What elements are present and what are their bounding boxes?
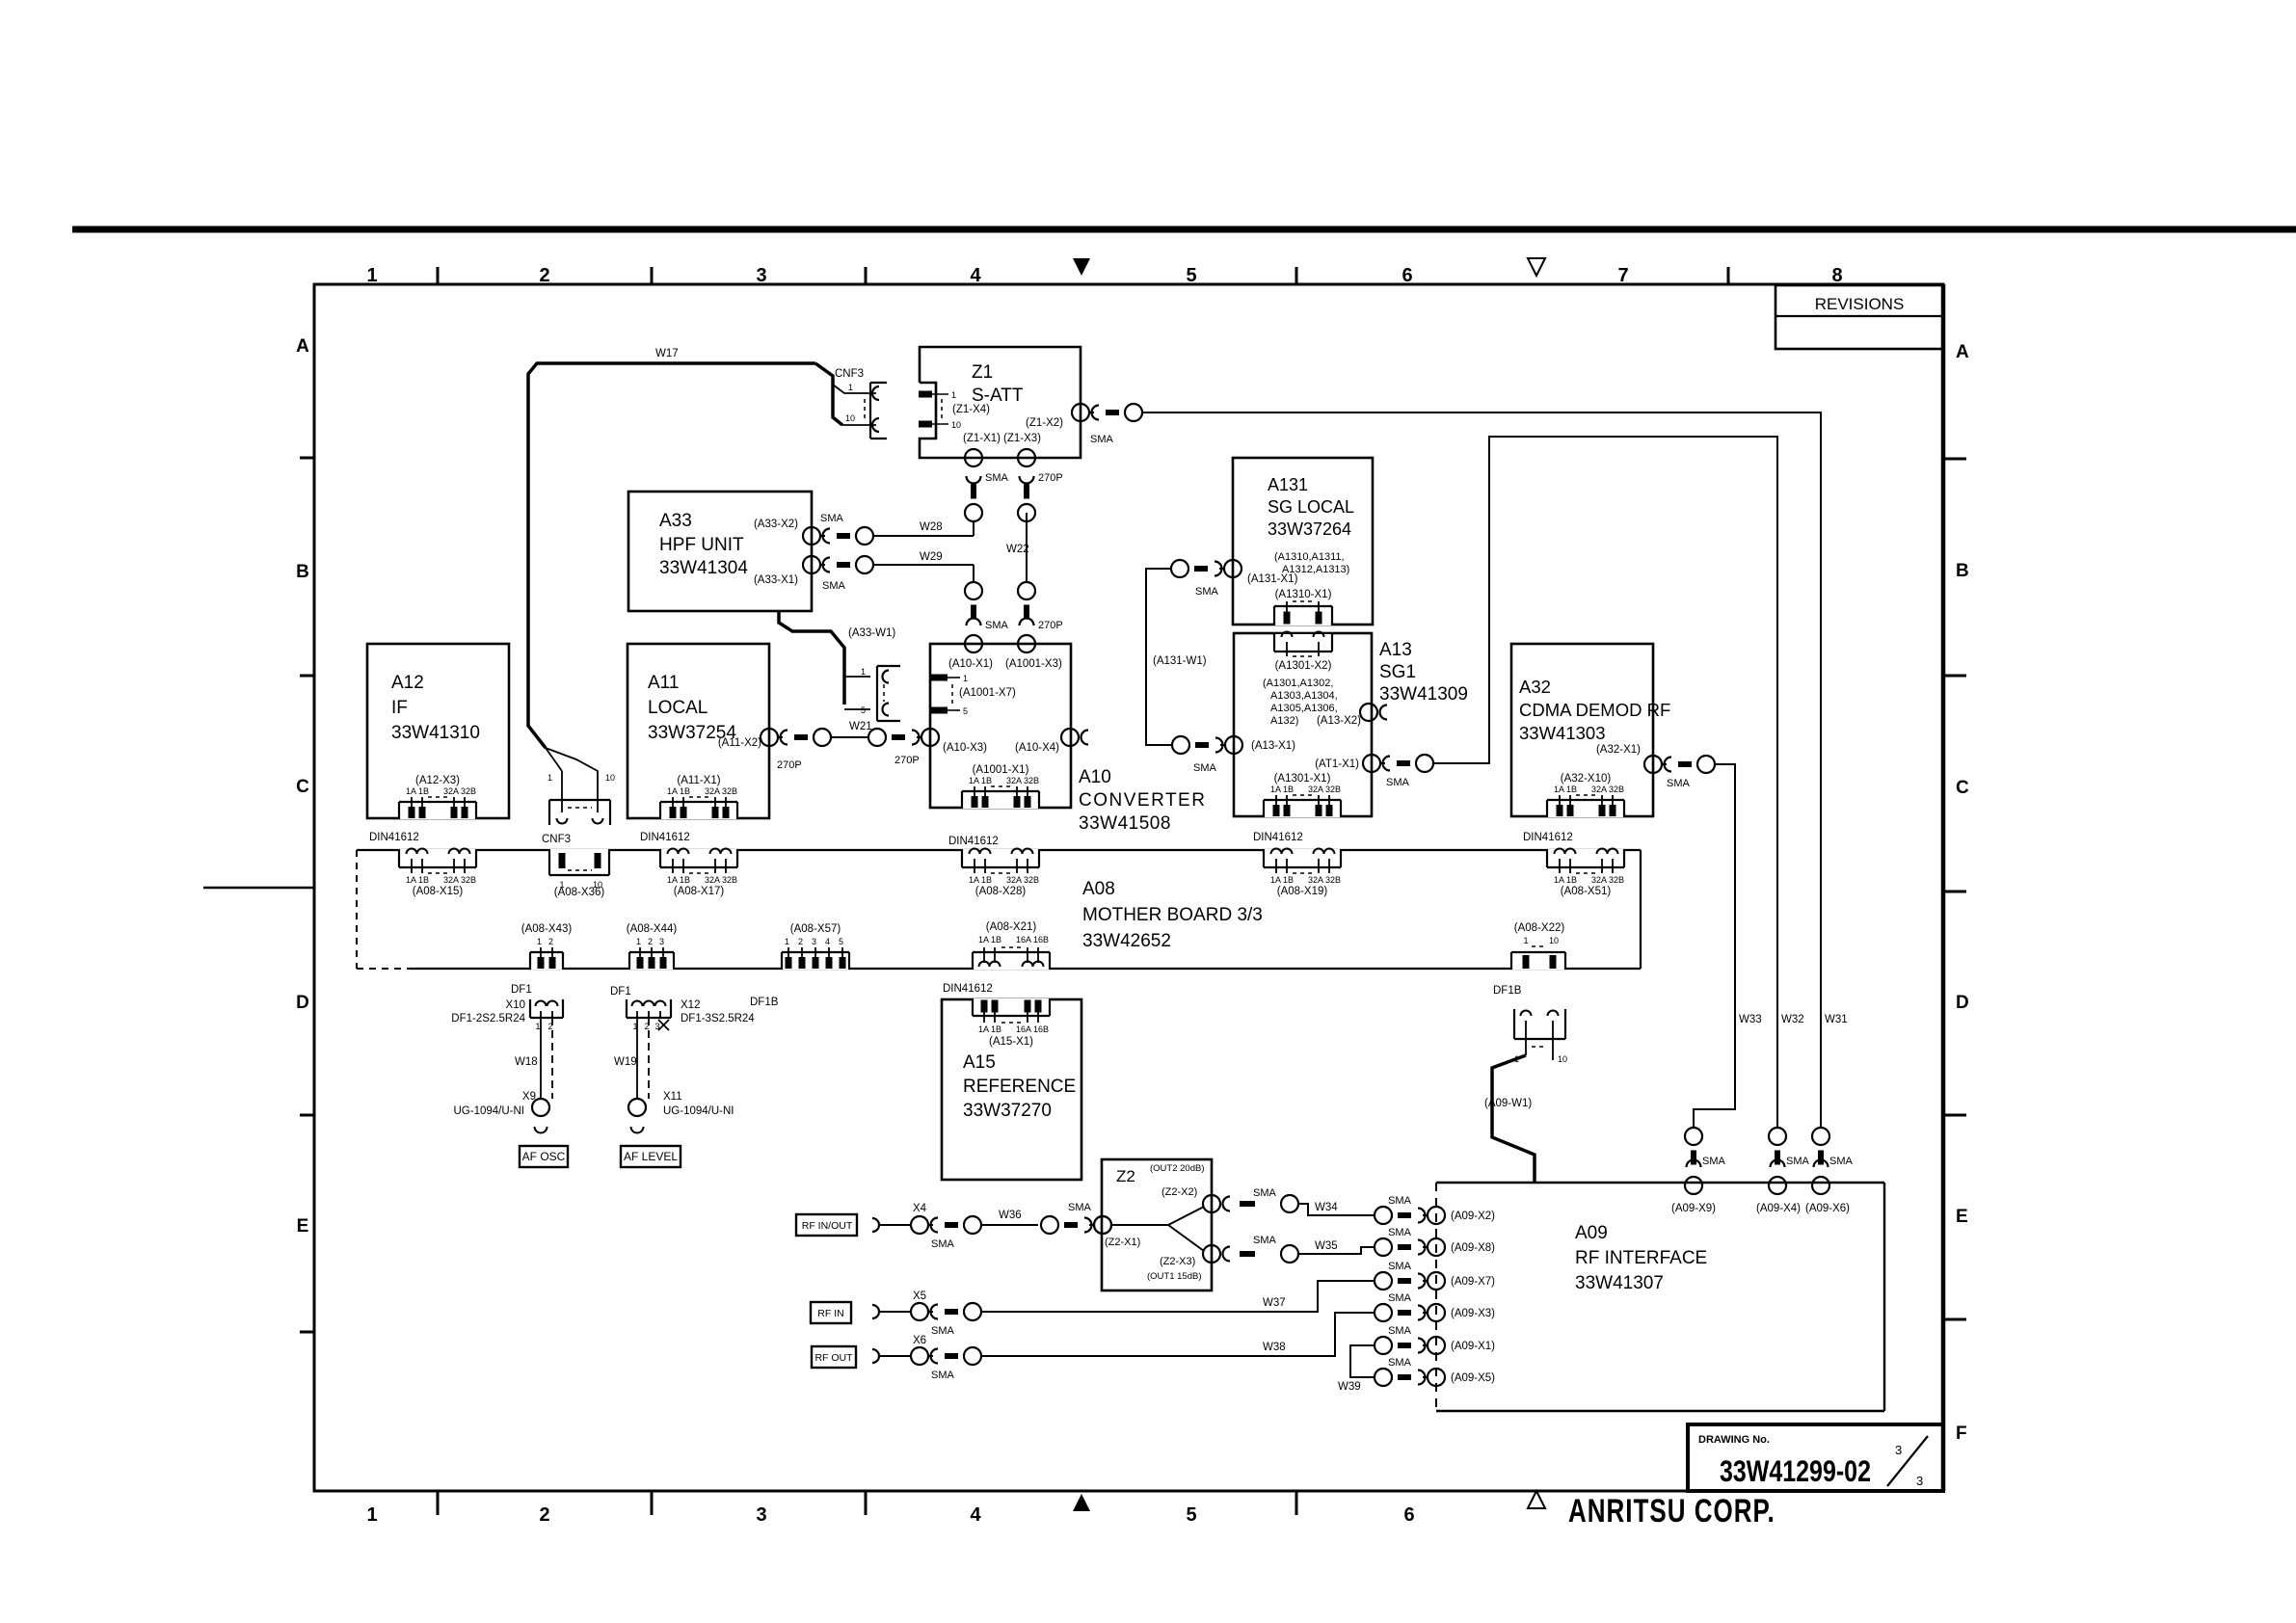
wire W21: [830, 736, 868, 738]
connector (A11-X2) 270P pair: [761, 729, 831, 746]
connector (A08-X28): [961, 849, 1040, 898]
bottom ruler zone numbers 1-6: [366, 1504, 1414, 1526]
svg-text:A13: A13: [1379, 640, 1412, 660]
splitter wires in Z2: [1111, 1207, 1204, 1251]
svg-text:3: 3: [1895, 1443, 1902, 1457]
label (A33-X1): [754, 574, 798, 586]
svg-text:W35: W35: [1315, 1240, 1338, 1252]
connector (A1301-X1) DIN: [1263, 773, 1342, 817]
svg-text:W18: W18: [515, 1056, 538, 1068]
svg-text:SMA: SMA: [1090, 434, 1114, 445]
label SMA at A09-X2: [1388, 1195, 1412, 1207]
label W39: [1338, 1381, 1361, 1393]
wire W22: [1026, 513, 1028, 582]
label SMA at A09-X1: [1388, 1325, 1412, 1337]
label SMA at A09-X9: [1702, 1156, 1726, 1167]
svg-text:A131: A131: [1268, 475, 1308, 494]
label X10: [451, 999, 525, 1024]
label X4: [913, 1203, 927, 1214]
connector (A09-X9) SMA chain: [1685, 1128, 1702, 1194]
svg-text:270P: 270P: [777, 759, 802, 771]
svg-text:4: 4: [970, 265, 981, 286]
label W17: [655, 348, 679, 359]
wire W17 pin stubs: [833, 383, 876, 425]
wire W35: [1298, 1247, 1375, 1254]
sheet fraction 3/3: [1887, 1436, 1928, 1488]
block A09 RF INTERFACE: [1436, 1183, 1884, 1411]
svg-text:1A 1B: 1A 1B: [1554, 875, 1577, 885]
svg-text:LOCAL: LOCAL: [648, 698, 707, 718]
connector CNF3 shell (mid): [549, 800, 610, 825]
svg-text:DIN41612: DIN41612: [1523, 832, 1573, 843]
svg-text:SMA: SMA: [931, 1370, 955, 1381]
svg-text:32A 32B: 32A 32B: [1591, 875, 1624, 885]
svg-text:(A08-X43): (A08-X43): [521, 923, 573, 935]
connector (Z2-X3) SMA pair: [1203, 1245, 1298, 1263]
svg-text:270P: 270P: [1038, 472, 1063, 484]
label DF1B under X22: [1493, 985, 1522, 997]
svg-text:SMA: SMA: [822, 580, 846, 592]
svg-text:1A 1B: 1A 1B: [969, 776, 992, 785]
connector (A1310-X1): [1274, 601, 1333, 625]
svg-text:W32: W32: [1781, 1014, 1804, 1025]
svg-text:2: 2: [548, 937, 553, 946]
label W34: [1315, 1202, 1338, 1213]
svg-text:X6: X6: [913, 1335, 926, 1346]
svg-text:16A 16B: 16A 16B: [1016, 1024, 1049, 1034]
label DIN41612 under A32: [1523, 832, 1573, 843]
svg-text:DF1-3S2.5R24: DF1-3S2.5R24: [681, 1013, 755, 1024]
svg-text:(OUT1 15dB): (OUT1 15dB): [1147, 1271, 1202, 1282]
label (A09-W1): [1484, 1098, 1532, 1109]
label (A09-X5): [1451, 1372, 1495, 1384]
svg-text:33W41303: 33W41303: [1519, 723, 1605, 743]
svg-text:3: 3: [756, 265, 766, 286]
connector (A1001-X3) 270P chain: [1018, 582, 1035, 652]
svg-text:1: 1: [366, 265, 377, 286]
label A32: [1519, 677, 1670, 743]
svg-text:(A08-X44): (A08-X44): [627, 923, 678, 935]
label 270P at A10-X3: [894, 755, 920, 766]
pin numbers X12: [632, 1020, 669, 1031]
svg-text:C: C: [1956, 778, 1969, 798]
label CNF3 (mid): [542, 834, 571, 845]
label (A13-X2): [1317, 715, 1361, 727]
label A33: [659, 511, 748, 578]
svg-text:(A08-X51): (A08-X51): [1561, 886, 1612, 897]
svg-text:SMA: SMA: [1193, 762, 1217, 774]
left border tick marks: [300, 458, 315, 1332]
svg-text:(OUT2 20dB): (OUT2 20dB): [1150, 1163, 1205, 1174]
label DF1 under X43: [511, 984, 532, 996]
label W21: [849, 721, 872, 732]
svg-text:(A1301,A1302,: (A1301,A1302,: [1263, 678, 1333, 689]
connector X9 plug: [532, 1099, 549, 1133]
svg-text:REVISIONS: REVISIONS: [1815, 295, 1905, 313]
svg-text:4: 4: [970, 1504, 981, 1526]
label SMA at A33-X1: [822, 580, 846, 592]
svg-text:1: 1: [547, 773, 552, 783]
panel label RF IN/OUT: [796, 1214, 857, 1236]
svg-text:(A09-X7): (A09-X7): [1451, 1276, 1495, 1288]
label (Z1-X4): [952, 404, 990, 415]
label W19: [614, 1056, 637, 1068]
svg-text:1: 1: [785, 937, 789, 946]
svg-text:A15: A15: [963, 1052, 996, 1073]
svg-text:B: B: [1956, 561, 1969, 581]
right border row letters A-F: [1956, 342, 1969, 1444]
label 270P at A11-X2: [777, 759, 802, 771]
svg-text:SMA: SMA: [820, 513, 844, 524]
label (A1001-X3): [1005, 658, 1062, 670]
connector (Z1-X3) 270P chain: [1018, 449, 1035, 521]
wire W36: [981, 1224, 1038, 1226]
svg-text:1: 1: [951, 390, 956, 400]
connector (AT1-X1) SMA pair: [1363, 755, 1433, 772]
connector X10 shell: [530, 999, 563, 1018]
connector (A08-X51): [1546, 849, 1625, 898]
connector (Z1-X4) pins: [919, 390, 961, 430]
svg-text:1A 1B: 1A 1B: [406, 786, 429, 796]
svg-text:SMA: SMA: [1702, 1156, 1726, 1167]
svg-text:DF1: DF1: [610, 986, 631, 998]
label (A09-X9): [1671, 1203, 1716, 1214]
label (A08-X36): [554, 887, 605, 898]
svg-text:32A 32B: 32A 32B: [1006, 875, 1039, 885]
svg-text:7: 7: [1617, 265, 1628, 286]
svg-text:(Z1-X4): (Z1-X4): [952, 404, 990, 415]
label W28: [920, 521, 943, 533]
panel label AF LEVEL: [621, 1146, 681, 1167]
connector (Z2-X2) SMA pair: [1203, 1195, 1298, 1212]
label SMA at Z2-X3: [1253, 1235, 1277, 1246]
label W29: [920, 551, 943, 563]
label (A08-X22): [1514, 922, 1565, 934]
svg-text:(Z1-X1): (Z1-X1): [963, 433, 1001, 444]
label SMA at X5: [931, 1325, 955, 1337]
label SMA at X6: [931, 1370, 955, 1381]
label (Z1-X2): [1026, 417, 1063, 429]
label W22: [1006, 544, 1029, 555]
label (A131-W1): [1153, 655, 1207, 667]
block Z1 S-ATT: [920, 347, 1081, 458]
svg-text:(AT1-X1): (AT1-X1): [1315, 758, 1359, 770]
svg-text:SMA: SMA: [1388, 1292, 1412, 1304]
label A11: [648, 673, 736, 743]
svg-text:8: 8: [1831, 265, 1842, 286]
label (A09-X6): [1805, 1203, 1850, 1214]
svg-text:SMA: SMA: [1388, 1261, 1412, 1272]
svg-text:1A 1B: 1A 1B: [667, 786, 690, 796]
svg-text:(A33-W1): (A33-W1): [848, 627, 895, 639]
wire A131-W1: [1146, 569, 1171, 745]
svg-text:SMA: SMA: [931, 1238, 955, 1250]
svg-text:X5: X5: [913, 1290, 926, 1302]
svg-text:(A13-X1): (A13-X1): [1251, 740, 1295, 752]
connector (A08-X19): [1263, 849, 1342, 898]
connector (A1001-X1) DIN: [961, 764, 1040, 809]
label (A09-X4): [1756, 1203, 1801, 1214]
wire W17 (thick): [528, 363, 842, 748]
connector shell for A33-W1: [861, 666, 900, 721]
svg-text:A32: A32: [1519, 677, 1551, 697]
bottom alignment triangle (filled): [1073, 1494, 1090, 1511]
svg-text:SMA: SMA: [985, 472, 1009, 484]
svg-text:33W41307: 33W41307: [1575, 1273, 1664, 1293]
svg-text:W28: W28: [920, 521, 943, 533]
svg-text:SMA: SMA: [985, 620, 1009, 631]
svg-text:E: E: [297, 1216, 309, 1237]
connector (A08-X43): [521, 923, 573, 970]
bottom ruler tick marks: [438, 1491, 1296, 1515]
block A11 LOCAL: [627, 644, 769, 818]
svg-text:16A 16B: 16A 16B: [1016, 935, 1049, 945]
frame heavy top rule: [72, 226, 2296, 233]
svg-text:5: 5: [861, 705, 866, 715]
svg-text:D: D: [296, 993, 309, 1013]
label SMA at A09-X8: [1388, 1227, 1412, 1238]
label A12: [391, 673, 480, 743]
label DIN41612 under A13: [1253, 832, 1303, 843]
board A08 outline: [357, 850, 1641, 969]
svg-text:33W41508: 33W41508: [1079, 813, 1171, 834]
bottom alignment triangle (open): [1528, 1491, 1545, 1508]
svg-text:A08: A08: [1082, 879, 1115, 899]
svg-text:A09: A09: [1575, 1223, 1608, 1243]
svg-text:(A11-X1): (A11-X1): [677, 775, 720, 786]
svg-text:5: 5: [963, 706, 968, 716]
svg-text:(A10-X3): (A10-X3): [943, 742, 987, 754]
connector X6 SMA pair: [911, 1347, 981, 1365]
label W35: [1315, 1240, 1338, 1252]
label (A1001-X7): [959, 687, 1016, 699]
svg-text:(A09-X1): (A09-X1): [1451, 1341, 1495, 1352]
svg-text:1A 1B: 1A 1B: [1270, 875, 1294, 885]
right border tick marks: [1942, 459, 1966, 1319]
connector (A08-X21): [972, 921, 1051, 970]
svg-text:CNF3: CNF3: [542, 834, 571, 845]
svg-text:SG LOCAL: SG LOCAL: [1268, 497, 1354, 517]
svg-text:W38: W38: [1263, 1342, 1286, 1353]
label 270P at A1001-X3: [1038, 620, 1063, 631]
revisions box: [1775, 285, 1943, 349]
svg-text:270P: 270P: [894, 755, 920, 766]
label SMA at A09-X3: [1388, 1292, 1412, 1304]
svg-text:1A 1B: 1A 1B: [978, 1024, 1001, 1034]
label (A13-X1): [1251, 740, 1295, 752]
svg-text:(A08-X28): (A08-X28): [975, 886, 1027, 897]
label SMA at A09-X7: [1388, 1261, 1412, 1272]
connector arc at RF OUT: [872, 1349, 911, 1363]
label W31: [1825, 1014, 1848, 1025]
svg-text:(A131-W1): (A131-W1): [1153, 655, 1207, 667]
connector arc at RF IN: [872, 1305, 911, 1318]
svg-text:C: C: [296, 777, 309, 797]
svg-text:SMA: SMA: [1253, 1235, 1277, 1246]
connector (A08-X17): [659, 849, 738, 898]
svg-text:33W41299-02: 33W41299-02: [1720, 1453, 1871, 1487]
label (A1310-X1): [1275, 589, 1332, 600]
connector (A09-X3) SMA pair: [1375, 1304, 1445, 1321]
label (OUT1 15dB): [1147, 1271, 1202, 1282]
svg-text:1: 1: [963, 674, 968, 683]
label DF1B under X57: [750, 997, 779, 1008]
svg-text:33W37270: 33W37270: [963, 1101, 1052, 1121]
label SMA at A09-X4: [1786, 1156, 1810, 1167]
label (A10-X4): [1015, 742, 1059, 754]
drawing number 33W41299-02: [1720, 1453, 1871, 1487]
wire W34: [1298, 1204, 1375, 1215]
svg-text:(A08-X19): (A08-X19): [1277, 886, 1328, 897]
svg-text:33W41309: 33W41309: [1379, 684, 1468, 705]
svg-text:32A 32B: 32A 32B: [705, 875, 737, 885]
svg-text:(A09-X2): (A09-X2): [1451, 1211, 1495, 1222]
svg-text:10: 10: [1549, 936, 1559, 945]
svg-text:6: 6: [1402, 265, 1412, 286]
svg-text:(A08-X21): (A08-X21): [986, 921, 1037, 933]
svg-text:DIN41612: DIN41612: [948, 836, 999, 847]
connector (A08-X57): [781, 923, 850, 970]
connector Z2-X1 cable pair: [1041, 1216, 1111, 1234]
svg-text:(A1001-X3): (A1001-X3): [1005, 658, 1062, 670]
label X12: [681, 999, 755, 1024]
svg-text:W34: W34: [1315, 1202, 1338, 1213]
label (A09-X7): [1451, 1276, 1495, 1288]
svg-text:A1305,A1306,: A1305,A1306,: [1270, 703, 1338, 714]
svg-text:CONVERTER: CONVERTER: [1079, 790, 1206, 811]
svg-text:A: A: [1956, 342, 1969, 362]
label W32: [1781, 1014, 1804, 1025]
svg-text:(Z2-X3): (Z2-X3): [1160, 1256, 1195, 1267]
label DIN41612 at A15: [943, 983, 993, 995]
label SMA at A33-X2: [820, 513, 844, 524]
label (A09-X8): [1451, 1242, 1495, 1254]
svg-text:32A 32B: 32A 32B: [1308, 875, 1341, 885]
label (A10-X3): [943, 742, 987, 754]
wire W38: [981, 1313, 1375, 1356]
label Z1: [972, 362, 1024, 406]
svg-text:1: 1: [535, 1022, 540, 1031]
svg-text:(Z1-X3): (Z1-X3): [1003, 433, 1041, 444]
label A1310 list: [1274, 551, 1349, 575]
svg-text:(A15-X1): (A15-X1): [989, 1036, 1033, 1048]
svg-text:(A11-X2): (A11-X2): [718, 737, 761, 749]
svg-text:(A08-X57): (A08-X57): [790, 923, 841, 935]
connector (A131-X1) SMA pair: [1171, 560, 1241, 577]
label SMA at Z2-X2: [1253, 1187, 1277, 1199]
svg-text:1: 1: [366, 1504, 377, 1526]
connector X11 plug: [628, 1099, 646, 1133]
svg-text:1A 1B: 1A 1B: [406, 875, 429, 885]
svg-text:CNF3: CNF3: [835, 368, 864, 380]
block A131 SG LOCAL: [1233, 458, 1373, 625]
svg-text:A11: A11: [648, 673, 679, 693]
svg-text:10: 10: [951, 420, 961, 430]
svg-text:10: 10: [845, 413, 855, 423]
svg-text:F: F: [1956, 1423, 1967, 1444]
svg-text:2: 2: [798, 937, 803, 946]
svg-text:SMA: SMA: [1386, 777, 1410, 788]
label (A09-X1): [1451, 1341, 1495, 1352]
svg-text:(A33-X1): (A33-X1): [754, 574, 798, 586]
svg-text:33W37264: 33W37264: [1268, 519, 1351, 539]
connector (A09-X2) SMA pair: [1375, 1207, 1445, 1224]
svg-text:10: 10: [605, 773, 615, 783]
svg-text:(A32-X1): (A32-X1): [1596, 744, 1641, 756]
wire W31: [1142, 412, 1821, 1128]
svg-text:W22: W22: [1006, 544, 1029, 555]
label (A131-X1): [1247, 573, 1298, 585]
label A10: [1079, 767, 1206, 834]
svg-text:RF OUT: RF OUT: [814, 1352, 853, 1364]
panel label AF OSC: [520, 1146, 568, 1167]
svg-text:REFERENCE: REFERENCE: [963, 1077, 1076, 1097]
wire A33-W1 (thick): [779, 611, 870, 709]
svg-text:1: 1: [861, 667, 866, 677]
wire W17 to CNF3 pins: [546, 748, 615, 812]
label (Z1-X3): [1003, 433, 1041, 444]
block A13 SG1: [1234, 633, 1372, 816]
connector (A13-X2): [1360, 704, 1387, 721]
svg-text:(A1310-X1): (A1310-X1): [1275, 589, 1332, 600]
connector (A09-X4) SMA chain: [1769, 1128, 1786, 1194]
svg-text:(A09-X4): (A09-X4): [1756, 1203, 1801, 1214]
top alignment triangle (open): [1528, 258, 1545, 276]
svg-text:HPF UNIT: HPF UNIT: [659, 535, 744, 555]
connector (A08-X15): [398, 849, 477, 898]
wire W32: [1433, 437, 1777, 1128]
panel label RF IN: [811, 1302, 851, 1323]
label A15: [963, 1052, 1076, 1121]
label SMA at A13-X1: [1193, 762, 1217, 774]
wire W39: [1350, 1345, 1375, 1377]
svg-text:SMA: SMA: [1253, 1187, 1277, 1199]
connector (A11-X1) DIN: [659, 775, 738, 819]
svg-text:1A 1B: 1A 1B: [978, 935, 1001, 945]
label A13: [1379, 640, 1468, 705]
svg-text:SMA: SMA: [1829, 1156, 1854, 1167]
svg-text:SMA: SMA: [1388, 1357, 1412, 1369]
label SMA at X4: [931, 1238, 955, 1250]
block Z2: [1102, 1159, 1212, 1290]
svg-text:W31: W31: [1825, 1014, 1848, 1025]
connector (A10-X4): [1061, 729, 1088, 746]
svg-text:1: 1: [636, 937, 641, 946]
svg-text:(A10-X1): (A10-X1): [948, 658, 993, 670]
svg-text:SMA: SMA: [1388, 1325, 1412, 1337]
svg-text:DIN41612: DIN41612: [1253, 832, 1303, 843]
label DIN41612 left: [369, 832, 419, 843]
top ruler zone numbers 1-8: [366, 265, 1842, 286]
label SMA at A131-X1: [1195, 586, 1219, 598]
label Z2: [1116, 1167, 1135, 1185]
svg-text:3: 3: [659, 937, 664, 946]
svg-text:W21: W21: [849, 721, 872, 732]
svg-text:5: 5: [1186, 265, 1196, 286]
svg-text:32A 32B: 32A 32B: [1591, 785, 1624, 794]
block A15 REFERENCE: [942, 999, 1081, 1180]
svg-text:2: 2: [539, 265, 549, 286]
label (A11-X2): [718, 737, 761, 749]
wire W28: [873, 521, 974, 536]
svg-text:3: 3: [812, 937, 816, 946]
svg-text:IF: IF: [391, 698, 408, 718]
label SMA at Z2-X1: [1068, 1202, 1092, 1213]
svg-text:UG-1094/U-NI: UG-1094/U-NI: [454, 1105, 525, 1117]
label W38: [1263, 1342, 1286, 1353]
connector X4 SMA pair: [911, 1216, 981, 1234]
svg-text:W17: W17: [655, 348, 679, 359]
